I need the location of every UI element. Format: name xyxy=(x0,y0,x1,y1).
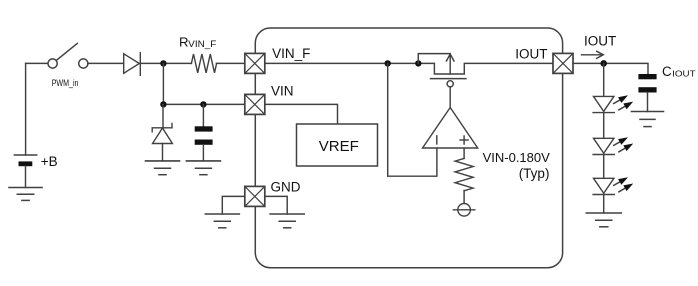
svg-text:GND: GND xyxy=(271,179,301,194)
ground (LED) xyxy=(586,213,621,227)
svg-text:VIN_F: VIN_F xyxy=(188,39,216,50)
wire plus input xyxy=(463,148,465,158)
wire junction down xyxy=(162,63,164,104)
op-amp U2 xyxy=(423,108,478,149)
pin VIN xyxy=(245,94,265,114)
svg-text:(Typ): (Typ) xyxy=(519,166,550,181)
svg-text:C: C xyxy=(662,64,672,79)
wire battery drop xyxy=(25,63,27,155)
pin GND xyxy=(245,186,265,206)
capacitor CIOUT xyxy=(638,74,656,112)
ground (C1) xyxy=(186,161,220,175)
ground (GND left) xyxy=(205,214,239,228)
wire to LED1 xyxy=(603,63,605,96)
wire LED2 to LED3 xyxy=(603,155,605,179)
svg-text:IOUT: IOUT xyxy=(515,46,547,61)
arrow IOUT xyxy=(582,51,604,58)
svg-text:VREF: VREF xyxy=(319,138,359,155)
wire to current source xyxy=(463,191,465,204)
wire feedback loop xyxy=(388,63,437,176)
LED D3 xyxy=(593,137,633,154)
pin IOUT xyxy=(553,53,573,73)
IC body U1 xyxy=(255,28,562,268)
label VIN-0.180V xyxy=(483,150,551,181)
diode D1 xyxy=(124,53,141,76)
ground (GND right) xyxy=(270,214,304,228)
wire second rail xyxy=(163,103,244,105)
wire switch to diode xyxy=(88,62,124,64)
ground (battery) xyxy=(9,188,42,201)
LED D4 xyxy=(593,177,633,194)
svg-text:PWM_in: PWM_in xyxy=(52,77,79,88)
wire GND right xyxy=(265,196,287,214)
resistor (sense) xyxy=(455,158,473,190)
node C (cap junction) xyxy=(200,101,206,107)
node A (top junction) xyxy=(160,60,166,66)
VREF block xyxy=(265,104,378,166)
wire diode to resistor xyxy=(140,62,191,64)
battery +B xyxy=(14,155,36,188)
ground (zener) xyxy=(146,161,180,175)
wire IOUT external xyxy=(573,63,648,74)
svg-text:VIN-0.180V: VIN-0.180V xyxy=(483,150,551,165)
current source I1 xyxy=(453,204,474,217)
wire LED1 to LED2 xyxy=(603,113,605,139)
node F (output junction) xyxy=(600,60,607,67)
wire GND left xyxy=(222,196,245,214)
transistor Q1 (PMOS) xyxy=(418,54,466,108)
switch PWM_in xyxy=(48,43,88,68)
label CIOUT xyxy=(662,64,696,79)
svg-text:+B: +B xyxy=(41,154,58,169)
node D (feedback junction) xyxy=(385,60,391,66)
ground (CIOUT) xyxy=(632,112,664,127)
zener diode xyxy=(152,104,172,160)
svg-text:VIN: VIN xyxy=(271,84,294,99)
svg-text:IOUT: IOUT xyxy=(584,33,616,48)
LED D2 xyxy=(593,95,633,112)
wire LED3 to ground xyxy=(603,195,605,214)
wire resistor to VIN_F pin xyxy=(216,62,244,64)
node B (zener junction) xyxy=(160,101,166,107)
wire top rail inside IC xyxy=(265,63,553,74)
pin VIN_F xyxy=(245,53,265,73)
svg-text:R: R xyxy=(179,34,189,49)
wire left rail to switch xyxy=(26,62,48,64)
svg-text:IOUT: IOUT xyxy=(672,69,695,79)
svg-text:VIN_F: VIN_F xyxy=(272,46,310,61)
resistor RVIN_F xyxy=(191,54,216,73)
capacitor C1 xyxy=(195,104,213,160)
label RVIN_F xyxy=(179,34,217,50)
node E (bulk junction) xyxy=(415,60,421,66)
